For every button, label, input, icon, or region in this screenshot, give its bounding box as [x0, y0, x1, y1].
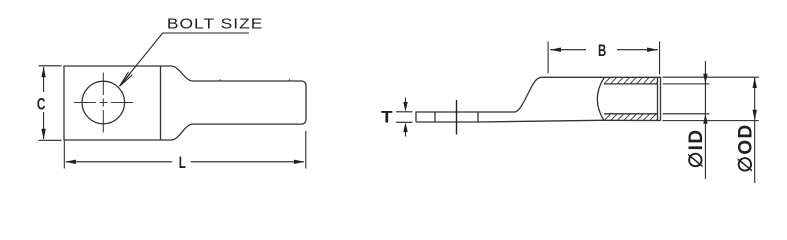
- svg-text:C: C: [37, 96, 46, 114]
- svg-text:∅ID: ∅ID: [686, 129, 707, 169]
- svg-text:∅OD: ∅OD: [735, 123, 756, 172]
- svg-text:L: L: [179, 153, 186, 171]
- svg-text:B: B: [598, 41, 606, 60]
- svg-text:BOLT SIZE: BOLT SIZE: [167, 17, 263, 32]
- svg-text:T: T: [381, 108, 393, 127]
